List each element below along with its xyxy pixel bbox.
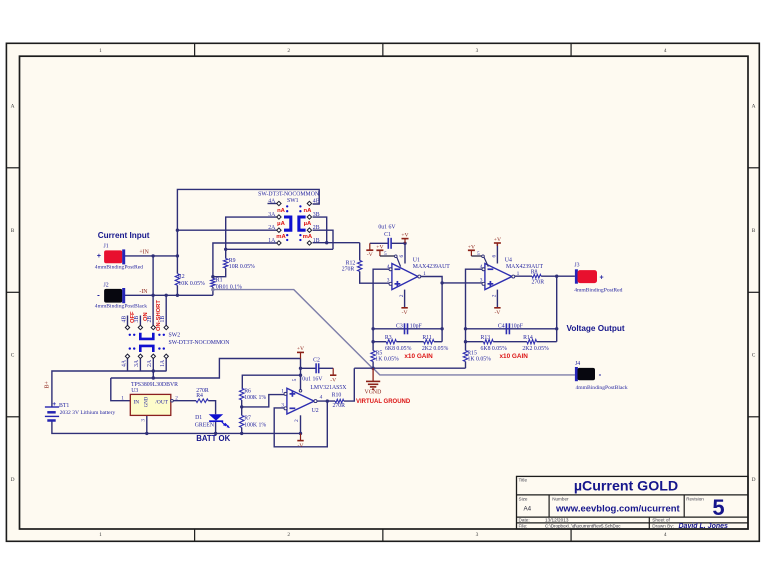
- svg-text:-V: -V: [367, 252, 373, 258]
- svg-text:6K8 0.05%: 6K8 0.05%: [481, 346, 508, 352]
- svg-text:GND: GND: [145, 396, 150, 407]
- svg-text:µA: µA: [304, 221, 312, 227]
- svg-text:File:: File:: [519, 524, 528, 529]
- svg-text:2K2 0.05%: 2K2 0.05%: [422, 346, 449, 352]
- svg-text:SW1: SW1: [287, 198, 299, 204]
- svg-text:4mmBindingPostBlack: 4mmBindingPostBlack: [576, 385, 628, 391]
- svg-text:U4: U4: [505, 258, 512, 264]
- svg-text:270R: 270R: [532, 279, 545, 285]
- svg-text:-IN: -IN: [139, 289, 148, 295]
- svg-text:J1: J1: [104, 244, 109, 250]
- svg-text:J3: J3: [574, 263, 579, 269]
- svg-text:2: 2: [399, 294, 405, 297]
- svg-text:+V: +V: [297, 346, 304, 352]
- svg-text:3: 3: [476, 48, 479, 54]
- svg-text:270R: 270R: [342, 267, 355, 273]
- svg-text:Voltage Output: Voltage Output: [567, 324, 625, 333]
- svg-text:13/12/2013: 13/12/2013: [545, 518, 569, 523]
- svg-text:TPS3809L30DBVR: TPS3809L30DBVR: [131, 382, 178, 388]
- svg-text:4mmBindingPostRed: 4mmBindingPostRed: [574, 287, 622, 293]
- svg-text:B: B: [11, 228, 15, 234]
- svg-text:SW-DT3T-NOCOMMON: SW-DT3T-NOCOMMON: [258, 191, 320, 197]
- svg-text:Drawn By:: Drawn By:: [652, 524, 674, 529]
- svg-text:100K 1%: 100K 1%: [244, 395, 266, 401]
- svg-text:VIRTUAL GROUND: VIRTUAL GROUND: [356, 399, 411, 405]
- svg-text:B+: B+: [45, 381, 51, 388]
- svg-text:R2: R2: [178, 274, 185, 280]
- svg-text:4: 4: [480, 264, 483, 270]
- svg-text:1A: 1A: [160, 359, 166, 367]
- svg-text:ON: ON: [143, 312, 149, 321]
- svg-text:5: 5: [384, 251, 387, 257]
- svg-text:10pF: 10pF: [511, 324, 524, 330]
- svg-text:R1: R1: [216, 278, 223, 284]
- svg-text:C1: C1: [384, 232, 391, 238]
- svg-text:IN: IN: [134, 400, 140, 406]
- svg-text:x10 GAIN: x10 GAIN: [404, 353, 433, 360]
- svg-text:3: 3: [476, 532, 479, 538]
- svg-text:3A: 3A: [134, 359, 140, 367]
- svg-text:U2: U2: [312, 408, 319, 414]
- svg-text:0R01 0.1%: 0R01 0.1%: [216, 284, 242, 290]
- svg-text:Current Input: Current Input: [98, 231, 150, 240]
- svg-text:2: 2: [287, 48, 290, 54]
- svg-text:1A: 1A: [268, 238, 276, 244]
- svg-text:B: B: [752, 228, 756, 234]
- svg-text:C2: C2: [313, 358, 320, 364]
- svg-text:10R 0.05%: 10R 0.05%: [229, 264, 255, 270]
- svg-text:U1: U1: [413, 258, 420, 264]
- svg-text:µA: µA: [277, 221, 285, 227]
- svg-text:x10 GAIN: x10 GAIN: [499, 353, 528, 360]
- svg-text:2: 2: [491, 294, 497, 297]
- svg-text:+V: +V: [401, 232, 408, 238]
- svg-text:2A: 2A: [147, 359, 153, 367]
- svg-text:1: 1: [281, 389, 284, 395]
- svg-text:6K8 0.05%: 6K8 0.05%: [385, 346, 412, 352]
- svg-text:MAX4239AUT: MAX4239AUT: [506, 264, 543, 270]
- svg-text:OFF: OFF: [130, 311, 136, 323]
- svg-text:J4: J4: [575, 361, 580, 367]
- svg-text:A: A: [11, 104, 15, 110]
- svg-text:C:\Dropbox\..\d\ucurrentRev5.S: C:\Dropbox\..\d\ucurrentRev5.SchDoc: [545, 524, 621, 529]
- svg-text:3A: 3A: [268, 212, 276, 218]
- svg-text:C: C: [11, 353, 15, 359]
- svg-text:D1: D1: [195, 415, 202, 421]
- svg-text:mA: mA: [303, 234, 313, 240]
- svg-text:BATT OK: BATT OK: [196, 434, 230, 443]
- svg-text:1B: 1B: [313, 238, 320, 244]
- svg-text:U3: U3: [131, 388, 138, 394]
- svg-text:2B: 2B: [313, 225, 320, 231]
- svg-text:J2: J2: [104, 283, 109, 289]
- svg-text:R11: R11: [422, 335, 432, 341]
- svg-text:mA: mA: [276, 234, 286, 240]
- svg-text:10K 0.05%: 10K 0.05%: [178, 281, 205, 287]
- svg-text:R14: R14: [523, 335, 533, 341]
- svg-text:R7: R7: [244, 416, 251, 422]
- svg-text:ON-SHORT: ON-SHORT: [156, 300, 162, 331]
- svg-text:4: 4: [664, 532, 667, 538]
- svg-text:GREEN: GREEN: [195, 422, 215, 428]
- svg-text:5: 5: [292, 378, 298, 381]
- svg-text:2: 2: [287, 532, 290, 538]
- svg-text:4B: 4B: [121, 316, 127, 323]
- svg-text:1: 1: [99, 532, 102, 538]
- svg-text:6: 6: [491, 255, 497, 258]
- svg-text:Size: Size: [519, 496, 528, 501]
- svg-text:R3: R3: [385, 335, 392, 341]
- svg-text:5: 5: [712, 495, 724, 520]
- svg-text:+V: +V: [468, 245, 475, 251]
- svg-text:4: 4: [387, 264, 390, 270]
- svg-text:3B: 3B: [313, 212, 320, 218]
- svg-text:0u1 16V: 0u1 16V: [302, 376, 323, 382]
- svg-text:3: 3: [141, 419, 147, 422]
- svg-text:-V: -V: [494, 310, 500, 316]
- svg-text:Title: Title: [519, 478, 528, 483]
- svg-text:C4: C4: [498, 324, 505, 330]
- svg-text:David L. Jones: David L. Jones: [679, 523, 729, 530]
- svg-text:Number: Number: [552, 496, 569, 501]
- svg-text:1: 1: [423, 271, 426, 277]
- svg-text:nA: nA: [303, 208, 312, 214]
- svg-text:4: 4: [664, 48, 667, 54]
- svg-text:R8: R8: [531, 269, 538, 275]
- svg-text:D: D: [752, 477, 756, 483]
- svg-text:+V: +V: [376, 245, 383, 251]
- svg-text:BT1: BT1: [59, 403, 69, 409]
- svg-text:+V: +V: [494, 237, 501, 243]
- svg-text:3: 3: [281, 402, 284, 408]
- svg-text:µCurrent GOLD: µCurrent GOLD: [574, 479, 678, 495]
- svg-text:6: 6: [399, 255, 405, 258]
- svg-text:C3: C3: [396, 324, 403, 330]
- svg-text:Date:: Date:: [519, 518, 530, 523]
- svg-text:3: 3: [480, 278, 483, 284]
- svg-text:R6: R6: [244, 389, 251, 395]
- svg-text:/OUT: /OUT: [155, 400, 168, 406]
- svg-text:LMV321AS5X: LMV321AS5X: [310, 385, 347, 391]
- svg-text:SW2: SW2: [169, 333, 181, 339]
- svg-text:MAX4239AUT: MAX4239AUT: [413, 264, 450, 270]
- svg-text:R9: R9: [229, 258, 236, 264]
- svg-text:VGND: VGND: [365, 390, 382, 396]
- svg-text:+: +: [52, 401, 56, 408]
- svg-text:1K 0.05%: 1K 0.05%: [468, 356, 492, 362]
- svg-text:4B: 4B: [313, 198, 320, 204]
- svg-text:4mmBindingPostRed: 4mmBindingPostRed: [95, 264, 143, 270]
- svg-text:+: +: [599, 274, 603, 281]
- svg-text:nA: nA: [277, 208, 286, 214]
- svg-text:-: -: [97, 291, 100, 300]
- svg-text:1: 1: [517, 271, 520, 277]
- svg-text:4mmBindingPostBlack: 4mmBindingPostBlack: [95, 303, 147, 309]
- svg-text:3: 3: [387, 278, 390, 284]
- svg-text:-V: -V: [330, 377, 336, 383]
- svg-text:10pF: 10pF: [410, 324, 423, 330]
- svg-text:R4: R4: [196, 393, 203, 399]
- svg-text:D: D: [11, 477, 15, 483]
- svg-text:+IN: +IN: [139, 250, 149, 256]
- svg-text:-V: -V: [402, 310, 408, 316]
- svg-text:Revision: Revision: [686, 496, 704, 501]
- svg-text:0u1 6V: 0u1 6V: [378, 225, 396, 231]
- svg-text:-V: -V: [298, 443, 304, 449]
- svg-text:270R: 270R: [332, 403, 345, 409]
- svg-text:2K2 0.05%: 2K2 0.05%: [522, 346, 549, 352]
- svg-text:www.eevblog.com/ucurrent: www.eevblog.com/ucurrent: [555, 504, 681, 515]
- svg-text:Sheet of: Sheet of: [652, 518, 670, 523]
- svg-text:1: 1: [99, 48, 102, 54]
- svg-text:5: 5: [477, 251, 480, 257]
- svg-text:R13: R13: [481, 335, 491, 341]
- svg-text:+: +: [97, 253, 101, 260]
- svg-text:2A: 2A: [268, 225, 276, 231]
- svg-text:A4: A4: [524, 505, 532, 512]
- svg-text:2032 3V Lithium battery: 2032 3V Lithium battery: [60, 410, 116, 416]
- svg-text:2: 2: [294, 419, 300, 422]
- svg-text:1: 1: [121, 396, 124, 402]
- svg-text:4: 4: [320, 395, 323, 401]
- svg-text:4A: 4A: [121, 359, 127, 367]
- svg-text:A: A: [752, 104, 756, 110]
- svg-text:SW-DT3T-NOCOMMON: SW-DT3T-NOCOMMON: [169, 340, 231, 346]
- svg-text:R10: R10: [332, 392, 342, 398]
- svg-text:-: -: [599, 370, 602, 379]
- svg-text:1K 0.05%: 1K 0.05%: [375, 356, 399, 362]
- svg-text:C: C: [752, 353, 756, 359]
- svg-text:2: 2: [175, 396, 178, 402]
- svg-text:100K 1%: 100K 1%: [244, 422, 266, 428]
